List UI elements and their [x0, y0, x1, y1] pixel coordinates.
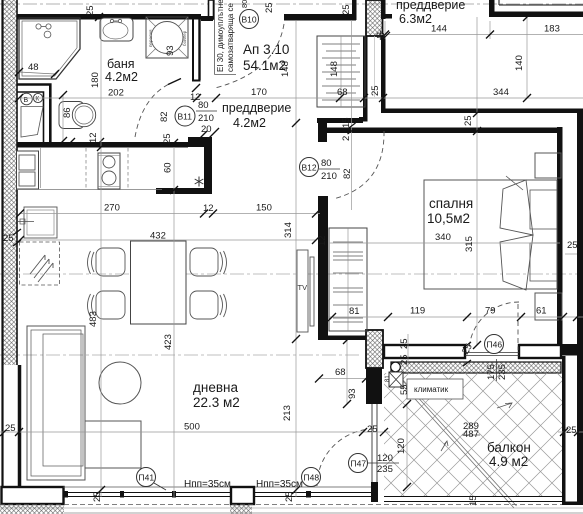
- svg-text:120: 120: [377, 453, 393, 464]
- svg-text:25: 25: [370, 85, 381, 96]
- door P47 jamb lines: [372, 404, 377, 487]
- svg-text:487: 487: [463, 429, 479, 440]
- exterior left wall lower part: [18, 365, 22, 488]
- svg-text:П48: П48: [304, 473, 320, 483]
- shaft niche walls double line: [17, 85, 50, 145]
- svg-text:144: 144: [431, 24, 447, 35]
- neighbour hall west wall: [381, 36, 386, 113]
- hatched pier top: [366, 0, 383, 36]
- svg-text:25: 25: [567, 240, 578, 251]
- svg-text:6.3м2: 6.3м2: [399, 12, 432, 26]
- kitchen sink double bowl: [17, 151, 39, 189]
- dimension line y240: [16, 231, 320, 245]
- door P47 size 120/235: [366, 453, 399, 475]
- long wall y110 to right edge: [383, 109, 583, 114]
- dimension line y213: [16, 203, 320, 218]
- chair top-right: [190, 248, 227, 276]
- balcony slope arrows: [441, 403, 512, 451]
- sofa: [27, 326, 141, 480]
- dimension chain bedroom south y317: [328, 306, 583, 322]
- svg-text:81: 81: [349, 306, 360, 317]
- svg-text:80: 80: [321, 158, 332, 169]
- svg-text:В11: В11: [178, 112, 193, 122]
- dimension line top right y34: [376, 21, 583, 41]
- label circle P47: [349, 454, 368, 473]
- svg-text:В12: В12: [302, 163, 317, 173]
- air conditioner unit: [389, 372, 403, 387]
- svg-text:119: 119: [410, 306, 425, 317]
- kitchen bay dashed lines: [86, 148, 128, 189]
- axis centerline middle: [0, 273, 583, 275]
- svg-text:20: 20: [201, 124, 212, 135]
- door B12 swing arc: [333, 131, 384, 199]
- balcony top hatched band: [391, 362, 561, 373]
- svg-text:314: 314: [283, 222, 294, 238]
- TV cabinet: [297, 250, 314, 332]
- dimension 315 vertical x477: [463, 17, 481, 349]
- nightstand bottom: [535, 293, 562, 320]
- svg-text:балкон: балкон: [487, 440, 531, 455]
- room label spalnya: [427, 196, 473, 226]
- label circle P46: [485, 335, 504, 354]
- svg-text:210: 210: [198, 113, 214, 124]
- svg-text:86: 86: [62, 107, 73, 118]
- svg-text:340: 340: [435, 232, 451, 243]
- svg-text:93: 93: [165, 45, 176, 56]
- window end frame bar: [371, 482, 378, 502]
- svg-text:25: 25: [92, 491, 103, 502]
- svg-text:25: 25: [566, 425, 577, 436]
- svg-text:500: 500: [184, 422, 200, 433]
- hatched pier mid: [366, 330, 383, 368]
- svg-text:60: 60: [163, 162, 174, 173]
- kitchen counter front edge: [17, 189, 162, 191]
- door P47 swing arc: [317, 429, 374, 486]
- axis centerline top: [0, 3, 583, 5]
- bed: [424, 176, 557, 290]
- svg-text:120: 120: [396, 438, 407, 454]
- svg-text:140: 140: [514, 55, 525, 71]
- hall east wall: [363, 36, 368, 121]
- balcony right wall: [562, 356, 566, 503]
- svg-text:12: 12: [317, 235, 328, 246]
- svg-text:Нпп=35см: Нпп=35см: [184, 479, 231, 490]
- door P46 swing arc: [469, 302, 519, 352]
- svg-text:бойлер: бойлер: [181, 30, 187, 46]
- svg-text:235: 235: [377, 464, 393, 475]
- apartment label: [243, 42, 289, 73]
- svg-text:82: 82: [342, 168, 353, 179]
- svg-text:202: 202: [108, 88, 124, 99]
- bottom-left wall corner block: [2, 487, 64, 504]
- dimension 48 shower: [15, 62, 59, 78]
- svg-text:В10: В10: [242, 15, 257, 25]
- svg-text:ЕІ 30, димоуплътнен: ЕІ 30, димоуплътнен: [216, 0, 225, 72]
- svg-text:25: 25: [3, 233, 14, 244]
- kitchen top wall: [17, 142, 188, 148]
- label circle P41: [137, 468, 167, 491]
- dimension 68 y378: [315, 367, 370, 383]
- label circle B10: [240, 10, 259, 29]
- round coffee table: [99, 362, 141, 404]
- exterior left wall hatched: [3, 0, 18, 487]
- svg-text:344: 344: [493, 87, 509, 98]
- svg-text:преддверие: преддверие: [396, 0, 465, 12]
- svg-text:213: 213: [282, 405, 293, 421]
- svg-text:183: 183: [544, 24, 560, 35]
- hall closet: [317, 36, 365, 107]
- svg-text:175: 175: [486, 364, 497, 380]
- svg-text:10,5м2: 10,5м2: [427, 211, 470, 226]
- neighbour top-right wall: [489, 0, 583, 17]
- svg-text:93: 93: [347, 388, 358, 399]
- parapet block west of door P46: [384, 345, 465, 358]
- svg-text:68: 68: [335, 367, 346, 378]
- wall chunk right of parapet: [561, 344, 583, 356]
- svg-text:дневна: дневна: [193, 380, 238, 395]
- door P46 threshold: [465, 352, 519, 354]
- living south-east wall band: [318, 336, 366, 341]
- svg-text:81: 81: [385, 375, 391, 382]
- svg-text:4.9 м2: 4.9 м2: [489, 454, 528, 469]
- svg-text:68: 68: [337, 87, 348, 98]
- window pier column: [230, 487, 254, 514]
- chair bottom-right: [190, 291, 227, 319]
- svg-text:270: 270: [104, 203, 120, 214]
- svg-text:12: 12: [203, 203, 214, 214]
- svg-text:2: 2: [341, 136, 352, 141]
- svg-text:25: 25: [341, 4, 352, 15]
- extension line x101 with 180 and 483: [88, 19, 105, 497]
- svg-text:80/210: 80/210: [240, 0, 249, 8]
- svg-text:315: 315: [464, 236, 475, 252]
- bedroom closet: [329, 228, 367, 331]
- dimension line y432: [0, 422, 583, 437]
- dimension 86 vertical bath: [59, 91, 73, 145]
- 25 rotated at door P46: [460, 342, 475, 366]
- svg-text:Нпп=35см: Нпп=35см: [256, 479, 303, 490]
- stove: [98, 153, 120, 189]
- kitchen right wall: [204, 137, 212, 194]
- bedroom right wall: [557, 127, 563, 353]
- svg-text:432: 432: [150, 231, 166, 242]
- label circle B12: [300, 158, 319, 177]
- appliance below sink: [18, 207, 57, 238]
- room label balkon: [487, 440, 531, 469]
- svg-text:180: 180: [90, 72, 101, 88]
- svg-text:22.3 м2: 22.3 м2: [193, 395, 240, 410]
- door B11 swing arc: [135, 81, 176, 137]
- extension line x345 with 148: [329, 20, 352, 210]
- svg-text:423: 423: [163, 334, 174, 350]
- svg-text:25: 25: [284, 491, 295, 502]
- svg-text:15: 15: [468, 495, 479, 506]
- kitchen counter inner edge: [40, 148, 42, 188]
- nightstand top: [535, 153, 561, 178]
- balcony bottom-right wall: [562, 502, 583, 506]
- balcony bottom parapet: [384, 497, 562, 502]
- door B12 size fraction 80/210: [319, 117, 356, 182]
- door B10 swing arc: [215, 24, 284, 88]
- svg-text:25: 25: [399, 354, 410, 365]
- door B10 annotations rotated: [240, 0, 275, 13]
- terrace dashed edge: [0, 504, 562, 506]
- chair bottom-left: [88, 291, 126, 319]
- dining table: [131, 241, 187, 324]
- svg-text:79: 79: [485, 306, 496, 317]
- shaft quad symbol: [21, 107, 43, 138]
- kitchen wall small dims: [88, 132, 178, 147]
- room label preddverie: [222, 101, 291, 130]
- bath sink: [100, 18, 133, 41]
- terrace slab lines: [0, 508, 583, 513]
- drain pipe circle: [391, 362, 401, 372]
- south window frame lines: [63, 493, 371, 497]
- south window top line: [63, 486, 378, 488]
- dimension 93 vertical x347: [343, 336, 358, 408]
- svg-text:25: 25: [264, 2, 275, 13]
- svg-text:25: 25: [162, 133, 173, 144]
- svg-text:25: 25: [367, 424, 378, 435]
- svg-text:25: 25: [85, 5, 96, 16]
- svg-text:170: 170: [251, 87, 267, 98]
- svg-text:12: 12: [190, 92, 201, 103]
- svg-text:баня: баня: [107, 57, 135, 71]
- window mullions: [64, 491, 311, 498]
- svg-text:4.2м2: 4.2м2: [105, 70, 138, 84]
- kitchen counter bottom wall: [156, 188, 212, 194]
- riser circle K: [33, 93, 42, 102]
- balcony overlapped dims 289 487: [463, 421, 479, 440]
- svg-text:483: 483: [88, 311, 99, 327]
- misc ticks: [67, 138, 75, 146]
- top wall mid (284-356): [284, 14, 356, 21]
- dimension 25 right gap y254: [565, 240, 578, 254]
- 25 25 stacked labels near parapet: [399, 334, 410, 366]
- svg-text:54.1м2: 54.1м2: [243, 58, 286, 73]
- svg-text:пералня: пералня: [148, 29, 153, 47]
- 25 labels window row: [92, 491, 295, 502]
- bath top wall: [17, 14, 201, 20]
- svg-text:П47: П47: [351, 459, 367, 469]
- vertical fire door note: [215, 0, 237, 75]
- svg-text:25: 25: [5, 423, 16, 434]
- svg-text:48: 48: [28, 62, 39, 73]
- svg-text:спалня: спалня: [429, 196, 473, 211]
- svg-text:К: К: [35, 96, 39, 103]
- shower cabin: [19, 18, 80, 79]
- wall W1 below door B12: [318, 196, 328, 340]
- room label preddverie neighbour: [396, 0, 465, 26]
- dimension 140 vertical x527: [514, 13, 531, 102]
- label circle P48: [302, 468, 321, 487]
- svg-text:235: 235: [497, 364, 508, 380]
- dimension 340 bedroom y243: [329, 232, 560, 243]
- outer right wall: [577, 113, 583, 503]
- boiler / washing unit with X: [146, 17, 188, 58]
- svg-text:П41: П41: [139, 473, 155, 483]
- svg-text:82: 82: [159, 111, 170, 122]
- svg-text:25: 25: [399, 338, 410, 349]
- parapet block east of door P46: [519, 345, 561, 358]
- svg-text:преддверие: преддверие: [222, 101, 291, 115]
- wall W1 stub above door B12: [318, 123, 327, 142]
- svg-text:210: 210: [321, 171, 337, 182]
- kitchen wall step over fridge: [188, 137, 204, 147]
- svg-text:Ап 3.10: Ап 3.10: [243, 42, 289, 57]
- svg-text:самозатваряща се: самозатваряща се: [226, 3, 235, 72]
- svg-text:12: 12: [88, 132, 99, 143]
- room label dnevna: [193, 380, 240, 410]
- Npp labels: [184, 479, 303, 490]
- svg-text:климатик: климатик: [414, 385, 449, 394]
- hall south wall band: [317, 118, 363, 123]
- svg-text:ф: ф: [376, 29, 385, 41]
- bedroom top wall: [326, 128, 563, 134]
- extension line x296 with 148 314 213: [280, 21, 300, 497]
- shaft dashed box with diagonal marks: [20, 242, 60, 285]
- room label banya: [105, 57, 138, 84]
- svg-text:150: 150: [256, 203, 272, 214]
- dimension chain y98: [15, 85, 583, 102]
- balcony floor cross hatch: [384, 373, 562, 508]
- label circle B11: [175, 106, 195, 126]
- svg-text:TV: TV: [298, 283, 308, 292]
- svg-text:4.2м2: 4.2м2: [233, 116, 266, 130]
- wall stub x352: [352, 0, 357, 20]
- riser circle V: [21, 93, 33, 105]
- wall stub x381: [381, 0, 386, 19]
- axis centerline living: [0, 354, 362, 356]
- dimension 120 vertical x413: [396, 400, 411, 491]
- entry door B10 left jamb: [209, 0, 214, 19]
- svg-text:25: 25: [463, 115, 474, 126]
- svg-text:55: 55: [399, 384, 410, 395]
- extension line x174 with 60 and 423: [163, 147, 179, 497]
- fridge asterisk: [195, 177, 204, 187]
- svg-text:148: 148: [329, 61, 340, 77]
- 25 dim left wall mid: [3, 229, 21, 246]
- svg-text:П46: П46: [487, 340, 503, 350]
- door P46 size 175/235 rotated: [486, 359, 508, 381]
- klimatik label box: [407, 379, 463, 399]
- toilet: [59, 102, 96, 129]
- chair top-left: [88, 248, 126, 276]
- bath right wall double line: [192, 17, 201, 81]
- balcony west wall solid: [366, 368, 382, 404]
- terrace hatch strip left: [0, 506, 64, 514]
- door B11 size fraction 80/210: [159, 84, 219, 141]
- svg-text:61: 61: [536, 306, 547, 317]
